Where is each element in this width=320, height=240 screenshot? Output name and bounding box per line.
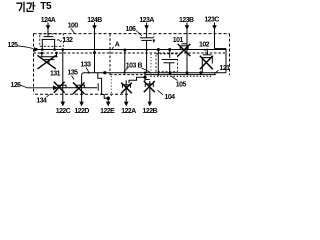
svg-text:123C: 123C: [204, 17, 219, 24]
svg-text:135: 135: [68, 69, 79, 76]
svg-text:122A: 122A: [121, 108, 136, 115]
svg-text:122D: 122D: [74, 108, 89, 115]
svg-text:123A: 123A: [139, 17, 154, 24]
svg-text:124B: 124B: [87, 17, 102, 24]
svg-text:100: 100: [68, 22, 79, 29]
svg-text:122E: 122E: [100, 108, 115, 115]
svg-text:132: 132: [63, 37, 74, 44]
svg-text:133: 133: [81, 62, 92, 69]
svg-text:122B: 122B: [143, 108, 158, 115]
svg-text:T5: T5: [40, 1, 52, 12]
svg-text:123B: 123B: [179, 17, 194, 24]
svg-text:101: 101: [173, 37, 184, 44]
svg-text:122C: 122C: [56, 108, 71, 115]
svg-text:134: 134: [36, 97, 47, 104]
svg-text:121: 121: [220, 65, 231, 72]
svg-text:104: 104: [165, 94, 176, 101]
svg-text:126: 126: [11, 82, 22, 89]
svg-text:106: 106: [126, 26, 137, 33]
svg-text:A: A: [115, 41, 120, 48]
svg-text:102: 102: [199, 41, 210, 48]
svg-text:103: 103: [126, 62, 137, 69]
svg-text:131: 131: [50, 71, 61, 78]
svg-text:125: 125: [8, 42, 19, 49]
svg-text:105: 105: [176, 81, 187, 88]
svg-text:124A: 124A: [41, 17, 56, 24]
svg-text:B: B: [138, 62, 143, 69]
